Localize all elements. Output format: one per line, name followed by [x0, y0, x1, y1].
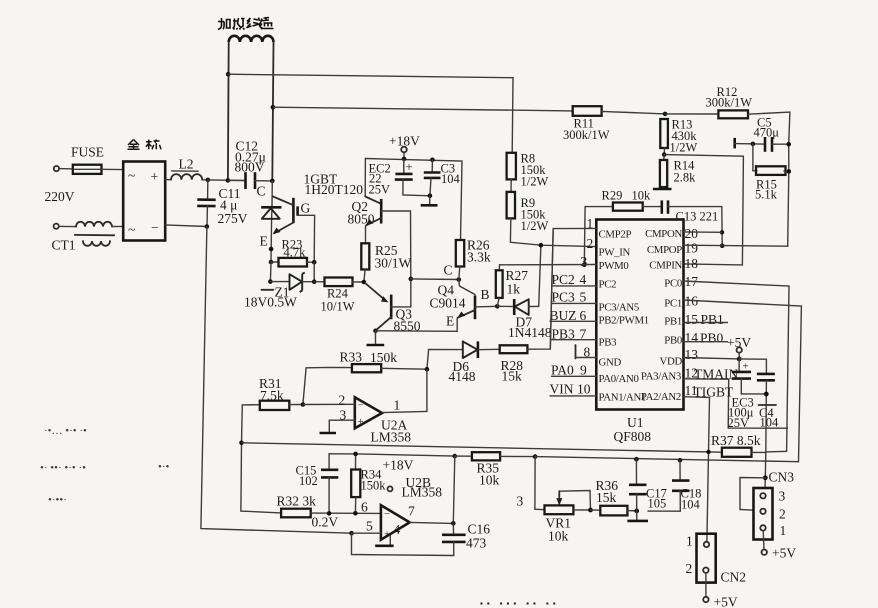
svg-text:PB1: PB1 [701, 312, 724, 327]
pin 17 wire PC0 [684, 281, 790, 452]
svg-text:5.1k: 5.1k [755, 188, 778, 202]
op-amp U2A [303, 369, 427, 444]
node U2A inverting input [301, 402, 306, 407]
svg-text:+5V: +5V [714, 595, 738, 608]
svg-text:25V: 25V [728, 416, 750, 430]
svg-text:105: 105 [648, 497, 667, 511]
svg-text:19: 19 [685, 241, 699, 256]
svg-text:2: 2 [339, 393, 346, 408]
svg-text:1k: 1k [507, 282, 521, 297]
U1 internal pin names left [599, 229, 649, 404]
wire lower line right [535, 457, 798, 462]
svg-text:−: − [151, 220, 159, 235]
svg-text:150k: 150k [370, 350, 397, 365]
terminal +5V CN2 [703, 573, 738, 608]
resistor R26 [456, 238, 491, 280]
node C5 right [786, 142, 791, 147]
svg-text:+18V: +18V [383, 458, 414, 473]
terminal +5V VDD [727, 335, 751, 359]
resistor R25 [361, 243, 411, 282]
resistor R28 [500, 229, 554, 384]
svg-text:▪▪ ▪▪▪ ▪▪ ▪▪: ▪▪ ▪▪▪ ▪▪ ▪▪ [480, 599, 560, 608]
svg-text:18: 18 [685, 256, 699, 271]
svg-text:PA2/AN2: PA2/AN2 [641, 391, 681, 403]
wire U2B plus leg down [352, 533, 454, 555]
node EC2 top [402, 157, 407, 162]
resistor R11 [563, 106, 665, 142]
capacitor C3 [424, 160, 461, 196]
wire lower line left end [329, 454, 455, 456]
svg-text:·•… •·• ·•: ·•… •·• ·• [44, 425, 87, 437]
svg-text:R32 3k: R32 3k [277, 494, 317, 509]
svg-text:5: 5 [580, 290, 587, 305]
terminal +18V U2B [383, 458, 414, 492]
node EC3 C4 bottom [764, 392, 769, 397]
svg-text:275V: 275V [218, 211, 248, 226]
connector CN2 [686, 534, 747, 585]
wire fuse to bridge [102, 168, 124, 170]
op-amp U2B [352, 475, 454, 546]
wire left rail down [201, 227, 352, 534]
IGBT V1 1H20T120 [260, 172, 364, 263]
wire long sense line to R37 [242, 443, 722, 452]
svg-text:473: 473 [466, 536, 487, 551]
resistor R23 [271, 238, 314, 267]
svg-text:10/1W: 10/1W [321, 300, 355, 314]
U1 right pin numbers [685, 226, 699, 398]
svg-text:1N4148: 1N4148 [508, 325, 552, 340]
wire terminal to fuse [59, 168, 73, 170]
node C12 left [226, 178, 231, 183]
svg-text:G: G [301, 201, 311, 216]
potentiometer VR1 [517, 457, 591, 544]
svg-text:+: + [151, 169, 159, 184]
wire D7 up to PW_IN [539, 245, 541, 306]
svg-text:6: 6 [361, 500, 368, 515]
wire collector bus to R11 [273, 107, 572, 111]
pin 13 wire VDD [684, 358, 740, 359]
svg-text:GND: GND [599, 357, 622, 369]
pin 1 wire CMP2P [550, 228, 596, 349]
capacitor EC3 [728, 357, 767, 431]
capacitor C11 [197, 180, 248, 227]
capacitor EC2 [369, 159, 430, 197]
svg-text:1: 1 [686, 534, 693, 549]
svg-text:10k: 10k [479, 473, 500, 488]
svg-text:C: C [257, 184, 266, 199]
svg-text:470μ: 470μ [754, 126, 780, 140]
pin 20 wire CMPON [684, 231, 723, 233]
svg-text:CMPOP: CMPOP [647, 244, 682, 256]
svg-text:LM358: LM358 [371, 430, 412, 445]
capacitor C18 [648, 458, 701, 512]
resistor R24 [314, 278, 364, 314]
svg-text:E: E [260, 234, 268, 249]
svg-text:L2: L2 [179, 157, 194, 172]
svg-text:PB0: PB0 [700, 331, 724, 346]
svg-text:15k: 15k [596, 490, 617, 505]
diode D7 1N4148 [497, 299, 551, 340]
svg-text:PW_IN: PW_IN [599, 247, 631, 259]
wire C row [411, 278, 459, 281]
svg-text:E: E [446, 314, 454, 329]
svg-text:4.7k: 4.7k [284, 246, 307, 260]
net label VIN pin10 [550, 382, 597, 397]
svg-text:300k/1W: 300k/1W [563, 128, 610, 142]
inductor L2 [171, 157, 202, 180]
svg-text:104: 104 [681, 498, 701, 512]
svg-text:800V: 800V [235, 160, 265, 175]
svg-text:+5V: +5V [772, 546, 796, 561]
node DC+ [206, 178, 211, 183]
svg-text:+: + [406, 160, 413, 174]
svg-text:20: 20 [685, 226, 699, 241]
terminal +18V [389, 134, 420, 159]
wire CN3 pin2 loop [740, 478, 765, 511]
transistor Q4 C9014 [430, 280, 498, 329]
svg-text:30/1W: 30/1W [375, 256, 412, 271]
wire L2 to node [202, 179, 208, 181]
svg-text:PC1: PC1 [664, 298, 682, 310]
svg-text:3: 3 [779, 489, 786, 504]
svg-text:4: 4 [394, 522, 401, 537]
svg-text:2.8k: 2.8k [674, 171, 697, 185]
wire R31 left column [241, 405, 281, 513]
bridge rectifier (full bridge) [123, 162, 165, 241]
svg-text:C16: C16 [468, 522, 491, 537]
node sense line tee [239, 441, 244, 446]
wire +18V rail [365, 159, 462, 241]
resistor R32 [277, 494, 381, 530]
svg-text:14: 14 [685, 330, 699, 345]
pin 19 wire CMPOP [684, 245, 788, 246]
heating coil inductor [228, 36, 274, 181]
svg-text:LM358: LM358 [402, 485, 443, 500]
node R33 right [425, 367, 430, 372]
svg-text:PA0/AN0: PA0/AN0 [599, 373, 639, 385]
node R35 right [533, 454, 538, 459]
svg-text:3: 3 [517, 494, 524, 509]
svg-text:1: 1 [780, 523, 787, 538]
node CN3 top [763, 475, 768, 480]
resistor R29 [584, 189, 651, 265]
ground below C3 [421, 196, 438, 206]
wire gate column down [313, 262, 315, 282]
resistor R9 [507, 192, 549, 233]
resistor R27 [496, 265, 528, 307]
node R35 left [453, 454, 458, 459]
svg-text:13: 13 [685, 347, 699, 362]
capacitor C5 [735, 116, 789, 152]
node C3 top [430, 158, 435, 163]
svg-text:R29: R29 [602, 189, 623, 203]
resistor R34 [351, 454, 386, 513]
svg-text:PA0: PA0 [551, 363, 574, 378]
svg-text:9: 9 [580, 363, 587, 378]
wire junction to CMPIN [664, 155, 743, 265]
wire R8 to R9 [510, 179, 512, 192]
svg-text:B: B [481, 287, 490, 302]
net label PB0 pin14 [684, 331, 728, 346]
node R34 bottom [353, 511, 358, 516]
svg-text:CMPIN: CMPIN [649, 260, 682, 272]
svg-text:CT1: CT1 [52, 238, 76, 253]
svg-text:8050: 8050 [348, 212, 375, 227]
node coil left tap [226, 72, 231, 77]
svg-text:~: ~ [128, 168, 135, 183]
svg-text:15: 15 [685, 312, 699, 327]
svg-text:U1: U1 [627, 415, 644, 430]
transistor Q3 8550 [365, 279, 421, 334]
resistor R8 [507, 152, 549, 189]
pin 3 node PWM0 [582, 262, 587, 267]
wire emitter column down [269, 262, 272, 282]
resistor R36 [591, 478, 637, 515]
node IGBT collector [270, 179, 275, 184]
ground below Q3 [367, 331, 385, 345]
pin 8 GND tick [576, 345, 597, 359]
svg-text:R33: R33 [340, 350, 363, 365]
net label PB3 pin7 [552, 327, 597, 342]
resistor R35 [455, 452, 535, 487]
svg-text:3.3k: 3.3k [467, 250, 491, 265]
op-amp IC U1 QF808 body [596, 220, 683, 445]
node R34 top [353, 452, 358, 457]
node driver output [362, 280, 367, 285]
svg-text:R37 8.5k: R37 8.5k [711, 433, 761, 448]
damper diode [261, 207, 281, 219]
svg-text:104: 104 [441, 172, 461, 186]
diode D6 4148 [427, 341, 500, 384]
svg-text:PA3/AN3: PA3/AN3 [641, 371, 681, 383]
net label TIGBT pin11 [684, 385, 734, 542]
node R26 bottom [457, 277, 462, 282]
svg-text:~: ~ [128, 222, 135, 237]
label 全桥 (full bridge, CJK strokes) [128, 140, 162, 150]
wire Q3 gnd row to Q4 emitter [376, 318, 458, 331]
fuse FUSE [71, 145, 104, 174]
svg-text:VIN: VIN [550, 382, 574, 397]
svg-text:CN2: CN2 [721, 570, 747, 585]
svg-text:1H20T120: 1H20T120 [305, 182, 364, 197]
pin 3 wire PWM0 [500, 264, 597, 266]
capacitor C4 [739, 359, 779, 430]
wire R37 right vertical [765, 394, 766, 488]
svg-text:PAN1/AN1: PAN1/AN1 [599, 392, 647, 404]
inductor CT1 [52, 222, 115, 253]
svg-text:+: + [743, 361, 749, 373]
resistor R31 [242, 376, 303, 410]
svg-text:15k: 15k [502, 369, 523, 384]
svg-text:4: 4 [580, 272, 587, 287]
svg-text:7: 7 [408, 504, 415, 519]
svg-text:7.5k: 7.5k [260, 388, 284, 403]
svg-text:1/2W: 1/2W [670, 141, 698, 155]
connector CN3 [754, 488, 787, 540]
capacitor C15 [296, 454, 339, 514]
svg-text:PB2/PWM1: PB2/PWM1 [599, 315, 649, 327]
svg-text:25V: 25V [369, 183, 391, 197]
wire DC+ node to C12 row [208, 179, 245, 182]
node C17 bottom [634, 509, 639, 514]
svg-text:CMP2P: CMP2P [599, 229, 632, 241]
node Q2 base / C row [409, 277, 414, 282]
pin 16 wire PC1 [684, 300, 802, 462]
node zener anode [268, 279, 273, 284]
node Q4 base [495, 304, 500, 309]
node VR1 wiper R36 [588, 508, 593, 513]
svg-text:PC0: PC0 [664, 278, 682, 290]
U1 left pin numbers [577, 216, 593, 397]
svg-text:PB1: PB1 [664, 316, 682, 328]
capacitor C12 [228, 139, 272, 190]
label 加热线盘 (heating coil, CJK strokes) [218, 18, 274, 30]
terminal N (neutral input) [54, 224, 59, 229]
svg-text:CN3: CN3 [769, 470, 795, 485]
svg-text:4148: 4148 [449, 369, 476, 384]
svg-text:PB3: PB3 [599, 337, 617, 349]
net label PA0 pin9 [551, 363, 596, 378]
resistor R37 [706, 433, 766, 457]
svg-text:10: 10 [577, 382, 591, 397]
svg-text:•·••·: •·••· [48, 494, 67, 506]
node R13 R14 junction [662, 152, 667, 157]
wire R9 to PW_IN row [510, 218, 596, 246]
node R15 right [787, 169, 792, 174]
node R13 top [663, 112, 668, 117]
net label PB1 pin15 [684, 312, 728, 327]
node C15 bottom [327, 511, 332, 516]
node Z1 gate junction [312, 279, 317, 284]
terminal L (220V live input) [54, 166, 59, 171]
svg-text:10k: 10k [548, 529, 569, 544]
node R23 right [312, 260, 317, 265]
node C5 left [751, 142, 756, 147]
wire right vertical R12 to CMPOP [788, 112, 790, 246]
net label TMAIN pin12 [684, 367, 788, 429]
net label PC3 pin5 [552, 290, 597, 305]
svg-text:2: 2 [779, 507, 786, 522]
svg-text:1/2W: 1/2W [521, 219, 549, 233]
U1 internal pin names right [641, 228, 683, 403]
resistor R12 [665, 85, 790, 118]
node pin19 [720, 244, 725, 249]
wire bridge minus to rail node [165, 225, 207, 227]
svg-text:18V0.5W: 18V0.5W [244, 295, 297, 310]
wire bridge plus output to L2 [165, 179, 171, 181]
svg-text:220V: 220V [45, 189, 75, 204]
node R23 left [269, 260, 274, 265]
svg-text:2: 2 [587, 236, 594, 251]
svg-text:+: + [358, 416, 364, 428]
svg-text:−: − [358, 400, 364, 412]
wire collector to emitter column [271, 181, 272, 262]
svg-text:VDD: VDD [660, 356, 683, 368]
resistor R15 [753, 144, 789, 202]
svg-text:C13 221: C13 221 [676, 210, 719, 224]
svg-text:FUSE: FUSE [71, 145, 104, 160]
svg-text:1: 1 [394, 398, 401, 413]
transistor Q2 8050 [348, 159, 411, 279]
svg-text:1/2W: 1/2W [521, 175, 549, 189]
node DC- [205, 224, 210, 229]
svg-text:PB0: PB0 [664, 335, 682, 347]
svg-text:+: + [384, 529, 390, 541]
wire R35 left descender [453, 456, 455, 523]
net label BUZ pin6 [550, 308, 597, 323]
node emitter [269, 247, 274, 252]
ground below C17 [627, 511, 648, 521]
svg-text:0.2V: 0.2V [312, 515, 339, 530]
capacitor C17 [629, 457, 667, 511]
svg-text:QF808: QF808 [614, 429, 652, 444]
svg-text:C9014: C9014 [430, 296, 466, 311]
svg-text:R24: R24 [327, 287, 349, 301]
resistor R13 [660, 118, 697, 155]
wire top bus to R8 [228, 74, 513, 153]
svg-text:102: 102 [299, 474, 318, 488]
svg-text:2: 2 [686, 561, 693, 576]
capacitor C16 [442, 521, 490, 555]
svg-text:CMPON: CMPON [645, 228, 682, 240]
zener Z1 [244, 272, 314, 309]
wire CT1 to bridge [112, 225, 123, 227]
svg-text:104: 104 [760, 416, 780, 430]
svg-text:PC3: PC3 [552, 290, 576, 305]
capacitor C13 [643, 200, 723, 245]
node pin20 tee [720, 230, 724, 234]
terminal +5V CN3 [762, 531, 797, 561]
resistor R14 [653, 155, 696, 189]
svg-text:PC2: PC2 [552, 272, 575, 287]
svg-text:300k/1W: 300k/1W [706, 96, 753, 110]
svg-text:150k: 150k [361, 479, 387, 493]
svg-text:PWM0: PWM0 [599, 260, 629, 272]
node Q3 collector gnd [373, 329, 378, 334]
node coil right tap [271, 105, 276, 110]
node PW_IN [539, 243, 544, 248]
node U2B plus input [349, 531, 354, 536]
svg-text:−: − [384, 508, 390, 520]
svg-text:•·•: •·• [158, 461, 170, 473]
svg-text:•· ••· •·• ·•: •· ••· •·• ·• [40, 462, 86, 474]
SECTION: ghosts [40, 425, 170, 506]
resistor R33 [303, 350, 427, 405]
svg-text:PC2: PC2 [599, 279, 617, 291]
svg-text:3: 3 [340, 408, 347, 423]
svg-text:PC3/AN5: PC3/AN5 [599, 302, 640, 314]
node EC2 C3 gnd [428, 194, 433, 199]
svg-text:5: 5 [366, 519, 373, 534]
svg-text:C: C [444, 263, 453, 278]
svg-text:10k: 10k [632, 189, 652, 203]
net label PC2 pin4 [552, 272, 597, 287]
